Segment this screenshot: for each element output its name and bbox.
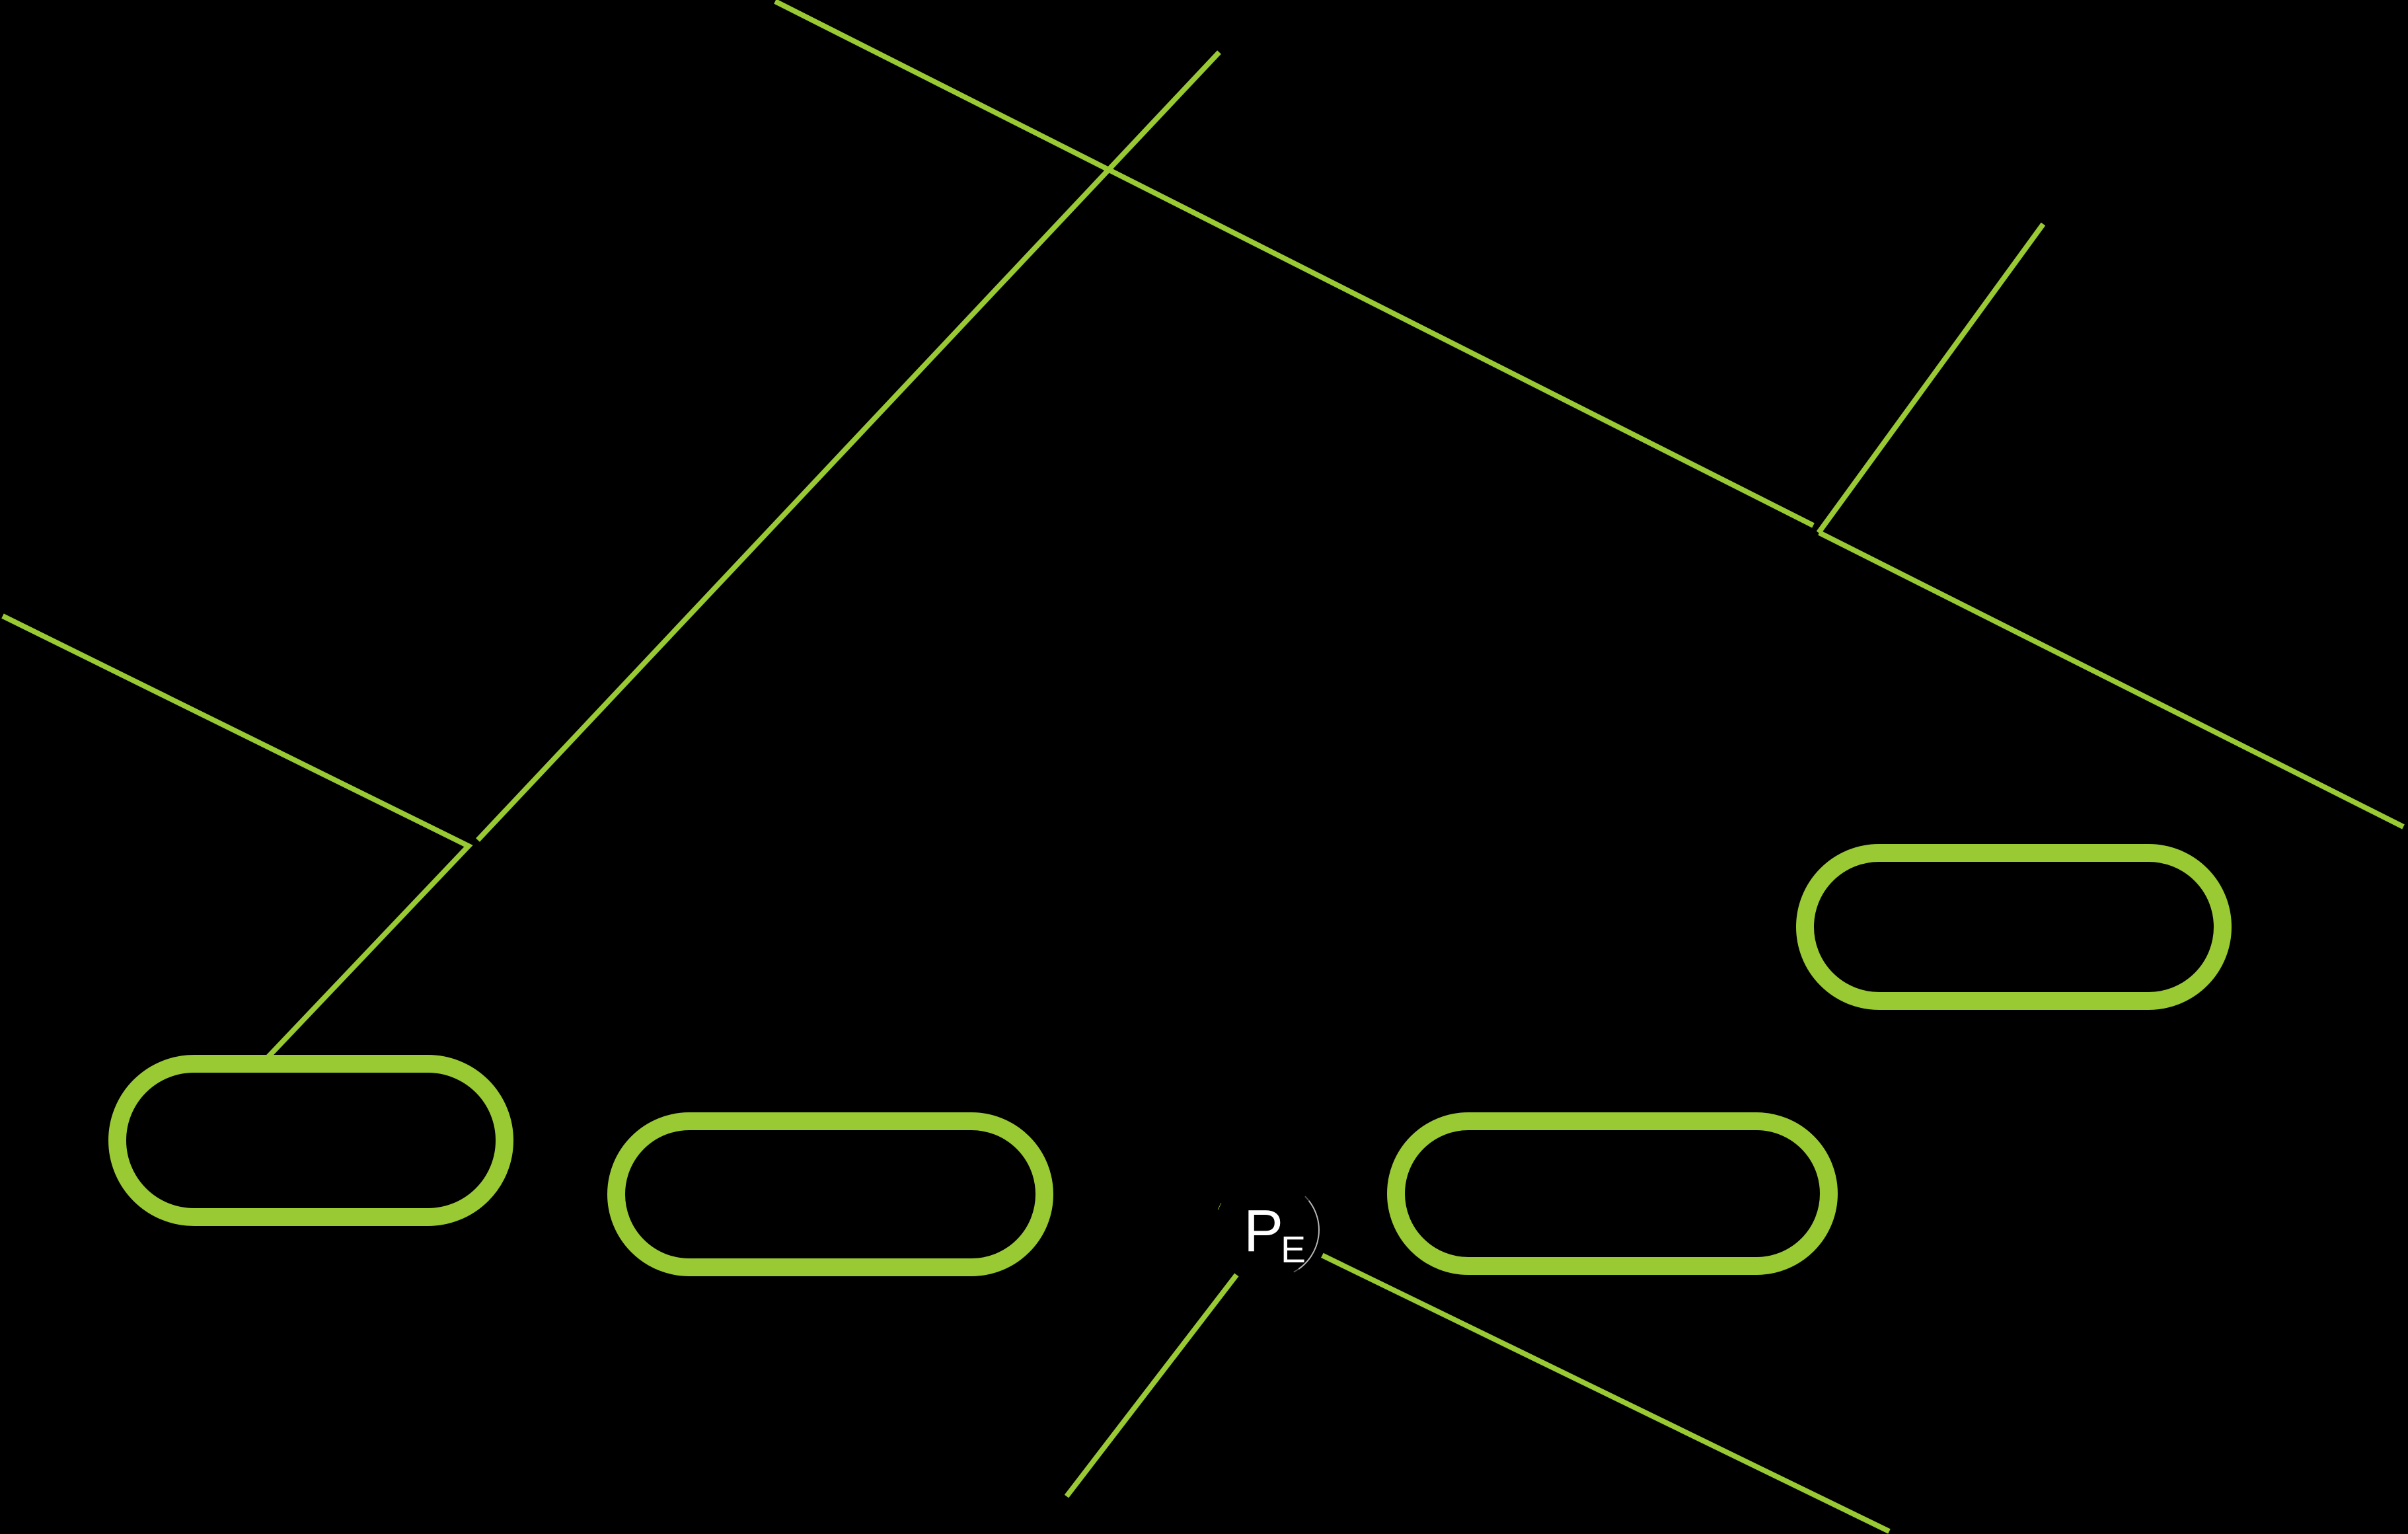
wire F (edge from node P_E down-left) [1067,1274,1237,1496]
svg-text:E: E [1281,1229,1306,1271]
node P_E white arc highlight [1298,1201,1319,1269]
wire stub near node P_E [1219,1204,1223,1210]
wire D (edge from upper right down to mid junction) [1819,224,2043,533]
wire G (edge from node P_E down-right) [1319,1254,1889,1531]
node box1 (rounded rectangle lower left) [118,1064,505,1217]
wire A2 (continuation of edge to lower right end) [1819,533,2403,827]
svg-text:P: P [1244,1198,1283,1264]
wire B (steep edge from top down-left to Y junction) [478,52,1219,840]
node box4 (rounded rectangle lower middle-right) [1396,1122,1829,1266]
node box3 (rounded rectangle upper right) [1805,853,2223,1001]
wire A1 (long edge from top to mid junction) [775,1,1813,525]
node P_E black disc [1215,1173,1328,1287]
wire C and wire E (edge from left margin bending at Y junction down to node box1) [3,616,469,1058]
node box2 (rounded rectangle lower middle-left) [617,1122,1045,1268]
